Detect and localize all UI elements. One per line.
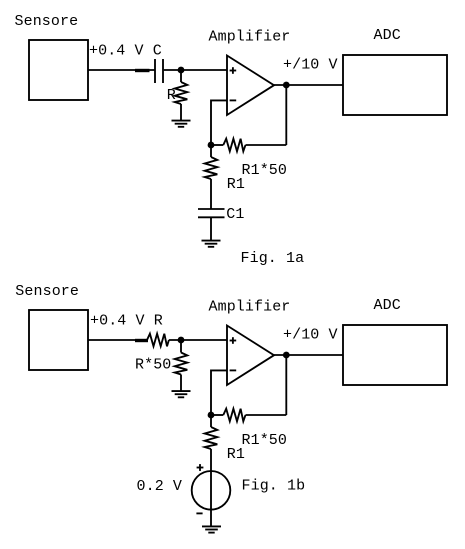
node feedback (fig 1a) bbox=[208, 142, 215, 149]
sensor box (fig 1b) bbox=[29, 310, 88, 370]
plus mark of source bbox=[197, 464, 204, 471]
svg-text:R: R bbox=[167, 87, 176, 104]
svg-text:R*50: R*50 bbox=[135, 356, 171, 373]
svg-text:R1*50: R1*50 bbox=[242, 162, 288, 179]
svg-text:+/10 V: +/10 V bbox=[283, 326, 338, 343]
wire R1 to ground through source bbox=[210, 449, 212, 526]
svg-text:Fig. 1a: Fig. 1a bbox=[241, 250, 305, 267]
op-amp minus input mark (fig 1b) bbox=[230, 369, 237, 371]
node input (fig 1a) bbox=[178, 67, 185, 74]
ground under source bbox=[202, 526, 221, 532]
ADC box (fig 1a) bbox=[343, 55, 447, 115]
resistor R1 (vertical, fig 1b) bbox=[205, 415, 218, 449]
capacitor C bbox=[155, 59, 163, 83]
wire C to op-amp + input bbox=[164, 69, 227, 71]
node input (fig 1b) bbox=[178, 337, 185, 344]
op-amp plus input mark (fig 1b) bbox=[230, 337, 237, 344]
resistor R (horizontal, fig 1b) bbox=[147, 334, 169, 347]
svg-text:Amplifier: Amplifier bbox=[209, 28, 291, 45]
wire sensor to R bbox=[88, 339, 147, 341]
wire minus input to feedback node (fig 1b) bbox=[211, 370, 227, 415]
wire minus input to feedback node bbox=[211, 100, 227, 145]
svg-text:R1*50: R1*50 bbox=[242, 432, 288, 449]
wire thick segment (fig 1a) bbox=[135, 69, 150, 72]
svg-text:+0.4 V C: +0.4 V C bbox=[89, 42, 162, 59]
ground under R*50 bbox=[172, 391, 191, 397]
ADC box (fig 1b) bbox=[343, 325, 447, 385]
wire thick segment (fig 1b) bbox=[135, 339, 148, 342]
svg-text:R1: R1 bbox=[227, 176, 245, 193]
op-amp U2 (fig 1b) bbox=[227, 326, 274, 386]
sensor box (fig 1a) bbox=[29, 40, 88, 100]
node output (fig 1b) bbox=[283, 352, 290, 359]
op-amp plus input mark bbox=[230, 67, 237, 74]
ground under R bbox=[172, 121, 191, 127]
wire feedback right segment (fig 1b) bbox=[246, 414, 287, 416]
wire feedback right segment bbox=[246, 144, 287, 146]
wire output down to feedback bbox=[285, 85, 287, 145]
resistor R (vertical) bbox=[175, 70, 188, 120]
svg-text:+0.4 V R: +0.4 V R bbox=[90, 312, 163, 329]
svg-text:Sensore: Sensore bbox=[15, 13, 79, 30]
wire C1 to ground bbox=[210, 217, 212, 240]
svg-text:0.2 V: 0.2 V bbox=[137, 478, 183, 495]
resistor R1*50 (horizontal, fig 1b) bbox=[211, 409, 246, 422]
capacitor C1 bbox=[198, 209, 225, 217]
svg-text:Amplifier: Amplifier bbox=[209, 298, 291, 315]
resistor R*50 (vertical) bbox=[175, 340, 188, 391]
resistor R1 (vertical, fig 1a) bbox=[205, 145, 218, 209]
svg-text:R1: R1 bbox=[227, 446, 245, 463]
wire output down to feedback (fig 1b) bbox=[285, 355, 287, 415]
minus mark of source bbox=[196, 512, 202, 514]
wire sensor to C bbox=[88, 69, 155, 71]
svg-text:Fig. 1b: Fig. 1b bbox=[242, 478, 306, 495]
op-amp minus input mark bbox=[230, 99, 237, 101]
node output (fig 1a) bbox=[283, 82, 290, 89]
svg-text:C1: C1 bbox=[226, 206, 244, 223]
wire op-amp output to ADC bbox=[274, 84, 343, 86]
svg-text:ADC: ADC bbox=[374, 27, 401, 44]
voltage source V1 0.2 V bbox=[192, 471, 231, 510]
wire R to op-amp + input bbox=[169, 339, 227, 341]
node feedback (fig 1b) bbox=[208, 412, 215, 419]
svg-text:ADC: ADC bbox=[374, 297, 401, 314]
svg-text:Sensore: Sensore bbox=[15, 283, 79, 300]
resistor R1*50 (horizontal, fig 1a) bbox=[211, 139, 246, 152]
svg-text:+/10 V: +/10 V bbox=[283, 56, 338, 73]
op-amp U1 (fig 1a) bbox=[227, 56, 274, 116]
ground under C1 bbox=[202, 241, 221, 247]
wire op-amp output to ADC (fig 1b) bbox=[274, 354, 343, 356]
